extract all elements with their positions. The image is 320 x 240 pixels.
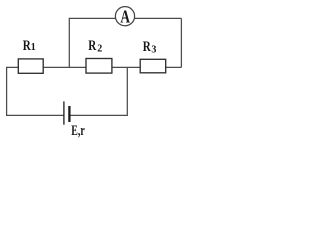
svg-text:1: 1 [31,42,36,53]
wire bottom horizontal right (battery to right riser) [70,114,127,116]
battery E,r short plate [68,106,70,122]
resistor R1 [18,59,43,73]
resistor R2 [86,59,112,74]
label R1 [23,38,36,54]
wire bottom-loop right vertical riser [126,67,128,116]
ammeter U1 circle [115,7,134,26]
svg-text:E,r: E,r [71,123,85,139]
wire top-branch left vertical riser [68,18,70,67]
svg-text:R: R [143,39,151,55]
wire left vertical (battery branch left) [6,67,8,116]
label R3 [143,39,157,55]
svg-text:A: A [120,6,130,26]
svg-text:R: R [88,38,96,54]
svg-text:3: 3 [151,45,156,56]
label R2 [88,38,102,55]
wire top-branch right vertical [180,18,182,67]
svg-text:2: 2 [97,44,102,55]
wire main horizontal (node chain R1-R2-R3) [7,66,182,68]
battery E,r long plate [63,101,65,124]
wire top horizontal right (ammeter to corner) [134,17,181,19]
wire top horizontal left (to ammeter) [69,17,116,19]
resistor R3 [140,59,166,73]
wire bottom horizontal left (to battery) [6,114,64,116]
